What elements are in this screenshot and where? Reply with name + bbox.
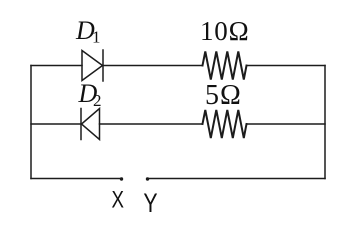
label D2 bbox=[78, 79, 102, 110]
node Y terminal dot bbox=[146, 177, 149, 180]
wire top branch left segment bbox=[31, 65, 82, 67]
svg-text:2: 2 bbox=[93, 91, 102, 110]
wire right vertical bbox=[324, 66, 326, 179]
label D1 bbox=[75, 16, 101, 47]
svg-text:5Ω: 5Ω bbox=[205, 80, 242, 111]
wire bottom right segment bbox=[148, 178, 326, 180]
diode D1 bbox=[82, 50, 103, 81]
diode D2 bbox=[81, 109, 100, 140]
wire middle branch right segment bbox=[247, 123, 326, 125]
wire left vertical bbox=[30, 66, 32, 179]
wire top branch middle segment bbox=[103, 65, 203, 67]
node X terminal dot bbox=[120, 177, 123, 180]
wire bottom left segment bbox=[31, 178, 122, 180]
wire middle branch middle segment bbox=[100, 123, 203, 125]
wire top branch right segment bbox=[247, 65, 326, 67]
svg-text:10Ω: 10Ω bbox=[200, 16, 249, 46]
svg-text:Y: Y bbox=[143, 188, 157, 218]
svg-text:X: X bbox=[111, 186, 123, 213]
resistor R1 10 ohm bbox=[203, 52, 247, 80]
resistor R2 5 ohm bbox=[203, 110, 247, 138]
svg-text:1: 1 bbox=[92, 28, 101, 47]
wire middle branch left segment bbox=[31, 123, 81, 125]
